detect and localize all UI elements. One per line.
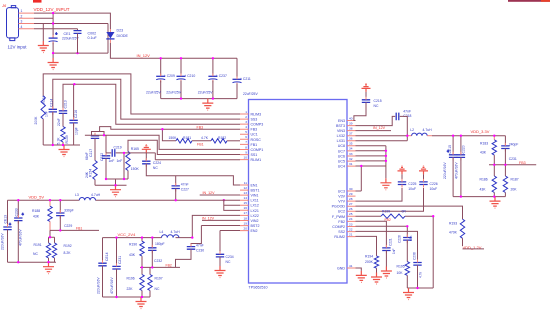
svg-text:R119: R119 — [42, 96, 46, 104]
svg-text:11: 11 — [244, 181, 247, 185]
wire VCC_2V4 rail — [103, 238, 193, 264]
svg-text:24K: 24K — [85, 171, 89, 178]
svg-text:D23: D23 — [117, 28, 124, 32]
capacitor C218 — [396, 113, 399, 121]
svg-text:R187: R187 — [511, 178, 519, 182]
svg-text:23: 23 — [349, 222, 353, 226]
svg-text:4.7K: 4.7K — [201, 136, 209, 140]
svg-text:32: 32 — [349, 157, 353, 161]
svg-text:25: 25 — [349, 212, 353, 216]
junction dots chan1 — [103, 134, 225, 201]
svg-text:EN1: EN1 — [251, 183, 258, 187]
svg-text:220uF/16V: 220uF/16V — [443, 162, 447, 179]
ground chan2 — [136, 297, 147, 309]
capacitor C219 series — [106, 152, 111, 154]
svg-text:C234: C234 — [226, 255, 234, 259]
wire C216 branch — [73, 84, 75, 120]
wire pin4 to C002 — [34, 28, 78, 30]
svg-text:BST2: BST2 — [251, 224, 260, 228]
capacitor C002 — [74, 29, 98, 53]
capacitor C230 bootstrap2 — [191, 226, 240, 247]
svg-text:220uF/16V: 220uF/16V — [97, 277, 101, 294]
svg-text:330pF: 330pF — [64, 209, 74, 213]
wire pin36 LX31 — [356, 136, 408, 141]
wire FB2 node — [140, 266, 180, 268]
ground R194 — [371, 273, 382, 285]
ground chan1 — [110, 185, 121, 197]
title bar fragment top-left — [33, 0, 42, 3]
svg-text:NC: NC — [33, 252, 38, 256]
svg-text:34: 34 — [349, 147, 353, 151]
svg-text:200K: 200K — [34, 116, 38, 125]
svg-text:IN_12V: IN_12V — [137, 53, 151, 58]
svg-text:LX11: LX11 — [251, 199, 259, 203]
capacitor CE14 — [98, 263, 106, 266]
svg-text:22uF/25V: 22uF/25V — [198, 90, 213, 94]
svg-text:22uF/25V: 22uF/25V — [146, 90, 161, 94]
svg-text:UC1: UC1 — [251, 133, 258, 137]
svg-text:SS2: SS2 — [338, 230, 345, 234]
svg-text:VDD_12V_INPUT: VDD_12V_INPUT — [34, 7, 70, 12]
wire LX2 to pin17 — [192, 215, 240, 237]
svg-text:19: 19 — [244, 221, 248, 225]
svg-text:43K: 43K — [480, 151, 487, 155]
wire bottom loop — [53, 52, 108, 54]
svg-text:R196: R196 — [127, 277, 135, 281]
svg-text:22: 22 — [349, 227, 353, 231]
wire VDD_3.3V rail — [427, 135, 432, 137]
capacitor C221 — [382, 248, 390, 251]
resistor R188 — [49, 200, 51, 206]
svg-text:C233: C233 — [14, 208, 18, 216]
svg-text:LX32: LX32 — [337, 134, 345, 138]
svg-text:FB1: FB1 — [197, 143, 204, 147]
svg-text:L3: L3 — [75, 193, 79, 197]
svg-text:4: 4 — [21, 25, 23, 29]
connector J6 — [1, 3, 27, 50]
resistor R182 — [211, 139, 227, 143]
svg-text:+: + — [55, 32, 57, 36]
svg-text:C221: C221 — [389, 238, 393, 246]
U1 pin names right — [332, 119, 346, 271]
svg-text:VCC_2V4: VCC_2V4 — [118, 232, 137, 237]
svg-text:VDD_5V: VDD_5V — [29, 195, 45, 200]
wire VDD_12V_INPUT — [34, 13, 110, 29]
svg-text:68nF: 68nF — [85, 152, 89, 160]
svg-text:150K: 150K — [169, 136, 178, 140]
svg-text:RLIM3: RLIM3 — [251, 112, 262, 116]
svg-text:R181: R181 — [183, 136, 191, 140]
svg-text:UC4: UC4 — [338, 165, 345, 169]
svg-text:COMP1: COMP1 — [251, 148, 264, 152]
svg-text:R194: R194 — [365, 255, 373, 259]
svg-text:VDD_3.3V: VDD_3.3V — [471, 129, 490, 134]
svg-text:C225: C225 — [408, 182, 416, 186]
svg-text:200K: 200K — [365, 260, 374, 264]
svg-text:+ C211: + C211 — [240, 77, 251, 81]
svg-text:V7V: V7V — [338, 200, 345, 204]
svg-text:27: 27 — [349, 202, 353, 206]
resistor R199 — [381, 214, 405, 218]
svg-text:VIN3: VIN3 — [337, 129, 345, 133]
svg-text:41: 41 — [349, 264, 353, 268]
wire to R191 R192 — [49, 230, 55, 243]
svg-text:470K: 470K — [449, 231, 458, 235]
svg-text:22K: 22K — [127, 287, 134, 291]
svg-text:FB2: FB2 — [166, 264, 172, 268]
power bar C224 — [142, 144, 151, 153]
svg-text:10K: 10K — [397, 271, 404, 275]
svg-text:R188: R188 — [32, 209, 40, 213]
capacitor C232 — [151, 238, 153, 248]
svg-text:J6: J6 — [1, 3, 7, 8]
svg-text:LX21: LX21 — [251, 209, 259, 213]
svg-text:40: 40 — [349, 116, 353, 120]
resistor R194 — [374, 256, 378, 268]
svg-text:29: 29 — [349, 192, 353, 196]
svg-text:UC2: UC2 — [338, 210, 345, 214]
wire C218 to LX3 — [400, 116, 408, 135]
svg-text:C222: C222 — [100, 153, 104, 161]
svg-text:4: 4 — [245, 125, 247, 129]
svg-text:1nF: 1nF — [45, 111, 49, 117]
svg-text:470uF/16V: 470uF/16V — [110, 277, 114, 294]
svg-text:C232: C232 — [154, 259, 162, 263]
wire C222 to rail — [105, 158, 107, 179]
resistor R196 — [141, 267, 143, 274]
junction dots VDD_5V — [17, 199, 177, 263]
svg-text:CE1: CE1 — [64, 32, 71, 36]
capacitor C231b 240pF — [504, 136, 506, 146]
inductor L4 — [162, 235, 179, 238]
svg-text:220uF/16V: 220uF/16V — [0, 233, 4, 250]
svg-text:NC: NC — [153, 166, 158, 170]
wire FB3 junction to divider row — [162, 129, 176, 141]
svg-text:IN_12V: IN_12V — [373, 126, 386, 130]
wire diode to IN_12V rail — [110, 43, 237, 58]
svg-text:+ C210: + C210 — [184, 74, 195, 78]
wire R119 to rail — [42, 119, 44, 145]
wire pin15 LX12 — [224, 204, 240, 206]
power bar C225 — [398, 166, 407, 175]
wire chan1 rail2 — [95, 184, 127, 186]
svg-text:R197: R197 — [155, 277, 163, 281]
wire FB1 node — [50, 229, 99, 231]
svg-text:1: 1 — [245, 110, 247, 114]
wire pins 35-31 to ground bus — [356, 146, 386, 179]
resistor R139 — [61, 127, 65, 143]
svg-text:39: 39 — [349, 121, 353, 125]
svg-text:36: 36 — [349, 137, 353, 141]
wire 3.3V bottom rail — [453, 196, 505, 198]
capacitor C209 — [146, 58, 175, 98]
svg-text:LX31: LX31 — [337, 139, 345, 143]
wire C213 to R139 — [62, 113, 64, 126]
capacitor C210 — [166, 58, 195, 98]
power bar C226 — [419, 166, 428, 175]
svg-text:1nF: 1nF — [392, 248, 396, 254]
svg-text:VIN1: VIN1 — [251, 194, 259, 198]
resistor R183 — [493, 136, 495, 140]
svg-text:C220: C220 — [461, 145, 465, 153]
svg-text:4.7uH: 4.7uH — [171, 230, 181, 234]
svg-text:21: 21 — [349, 232, 353, 236]
svg-text:C231: C231 — [118, 256, 122, 264]
svg-text:220uF/25V: 220uF/25V — [62, 36, 79, 40]
svg-text:F_PWM: F_PWM — [332, 215, 345, 219]
wire pin8 COMP1 jog to C222 — [85, 135, 240, 156]
resistor R193 pullup — [460, 219, 464, 238]
svg-text:FB1: FB1 — [251, 143, 258, 147]
svg-text:FB2: FB2 — [338, 220, 345, 224]
wire pin38 VIN3 — [356, 130, 392, 132]
ground CE1 — [48, 58, 59, 70]
junction dots 3.3V — [406, 135, 507, 198]
svg-text:VIN2: VIN2 — [251, 219, 259, 223]
svg-text:RLIM2: RLIM2 — [334, 235, 345, 239]
svg-text:R191: R191 — [34, 243, 42, 247]
svg-text:10pF: 10pF — [75, 127, 79, 135]
resistor R187 — [504, 165, 506, 176]
svg-text:0.1uF: 0.1uF — [88, 36, 98, 40]
svg-text:18: 18 — [244, 216, 248, 220]
svg-text:R193: R193 — [449, 222, 457, 226]
svg-text:C216: C216 — [74, 110, 78, 118]
resistor R192 — [52, 243, 56, 258]
wire pin41 GND — [356, 268, 362, 271]
wire C214 to rail — [52, 112, 54, 145]
wire R191 R192 bottoms to rail — [8, 258, 57, 262]
svg-text:13: 13 — [244, 191, 248, 195]
wire pin28 V7V to caps — [356, 188, 424, 211]
ground C234 — [215, 266, 226, 278]
wire pin16 LX21 — [224, 200, 240, 210]
svg-text:+ C209: + C209 — [164, 74, 175, 78]
title bar fragment top-right — [508, 0, 550, 2]
op-amp U1 TPS652510 IC body — [249, 100, 348, 284]
svg-text:16: 16 — [244, 206, 248, 210]
junction dots comp2 — [406, 215, 434, 289]
U1 left pin stubs — [240, 114, 249, 231]
svg-text:10uF: 10uF — [430, 187, 438, 191]
svg-text:4.7uH: 4.7uH — [91, 193, 101, 197]
svg-text:37: 37 — [349, 132, 353, 136]
wire comp2 bottom rail — [407, 287, 433, 289]
svg-text:33: 33 — [349, 152, 353, 156]
svg-text:UC3: UC3 — [338, 189, 345, 193]
svg-text:R192: R192 — [64, 244, 72, 248]
wire C216 to rail — [73, 123, 75, 145]
capacitor C228 — [403, 238, 411, 241]
junction dots UC bus — [385, 150, 387, 162]
capacitor CE15 — [452, 136, 454, 155]
capacitor C229 — [59, 200, 61, 213]
svg-text:24: 24 — [349, 217, 353, 221]
svg-text:NC: NC — [374, 104, 379, 108]
resistor R165 — [126, 152, 130, 171]
wire pin2 SS3 to C214 — [53, 79, 240, 119]
svg-text:150K: 150K — [131, 167, 140, 171]
svg-text:6: 6 — [245, 135, 247, 139]
capacitor C231 — [116, 238, 118, 267]
svg-text:UC8: UC8 — [338, 144, 345, 148]
svg-text:NC: NC — [226, 260, 231, 264]
svg-text:PGOOD: PGOOD — [332, 205, 346, 209]
wire caps bottom rail — [161, 98, 237, 100]
capacitor C220 — [460, 136, 462, 155]
svg-text:C231: C231 — [509, 157, 517, 161]
wire pin27 PGOOD — [356, 206, 463, 219]
svg-text:C215: C215 — [374, 99, 382, 103]
svg-text:LX12: LX12 — [251, 204, 259, 208]
svg-text:L4: L4 — [160, 230, 164, 234]
svg-text:ROSC: ROSC — [251, 138, 262, 142]
junction dots IN_12V rail — [160, 57, 215, 100]
svg-text:5.1K: 5.1K — [57, 137, 61, 145]
svg-text:35: 35 — [349, 142, 353, 146]
wire pin23 COMP2 — [356, 226, 408, 237]
wire R165 to rail — [127, 171, 129, 180]
svg-text:FB3: FB3 — [519, 161, 526, 165]
svg-text:43K: 43K — [480, 187, 487, 191]
svg-text:R186: R186 — [480, 178, 488, 182]
svg-text:470uF/16V: 470uF/16V — [454, 162, 458, 179]
svg-text:47nF: 47nF — [403, 109, 411, 113]
pin numbers J6 1-4 — [21, 9, 23, 29]
svg-text:FB1: FB1 — [76, 226, 82, 230]
wire C224 to pin11 EN1 — [146, 164, 240, 185]
junction dot FB3 — [161, 128, 163, 130]
svg-text:SS1: SS1 — [251, 153, 258, 157]
svg-text:IN_12V: IN_12V — [203, 191, 216, 195]
resistor R154 — [93, 161, 97, 180]
wire pin9 SS1 jog to R165 — [128, 140, 240, 154]
svg-text:GND: GND — [337, 266, 345, 270]
svg-text:1nF: 1nF — [109, 159, 115, 163]
svg-text:5: 5 — [245, 130, 247, 134]
junction dots chan2 — [115, 236, 193, 298]
capacitor CE13 — [3, 227, 11, 230]
svg-text:R154: R154 — [89, 169, 93, 177]
svg-text:C238: C238 — [413, 252, 417, 260]
svg-text:COMP2: COMP2 — [332, 225, 345, 229]
svg-text:180pF: 180pF — [155, 242, 165, 246]
wire pin2 to CE1 — [34, 17, 53, 19]
svg-text:26: 26 — [349, 207, 353, 211]
svg-text:C219: C219 — [114, 145, 122, 149]
wire pin13 VIN1 — [200, 194, 240, 196]
svg-text:8.2K: 8.2K — [64, 251, 72, 255]
svg-text:28: 28 — [349, 197, 353, 201]
inductor L3 — [79, 198, 95, 201]
capacitor C233 — [17, 200, 19, 218]
svg-text:4.7uH: 4.7uH — [423, 128, 433, 132]
svg-text:TPS652510: TPS652510 — [249, 286, 268, 290]
wire pin24 FB2 — [356, 221, 387, 248]
resistor R195 — [405, 262, 409, 276]
svg-text:UC7: UC7 — [338, 149, 345, 153]
svg-text:C224: C224 — [153, 161, 161, 165]
wire pin25 F_PWM — [356, 215, 382, 217]
svg-text:10: 10 — [244, 155, 248, 159]
wire pin30 UC3 tie to pin31 — [356, 166, 362, 191]
wire pin37 LX32 to L2 — [356, 135, 409, 137]
capacitor CE1 — [49, 13, 80, 58]
svg-text:0R: 0R — [402, 210, 407, 214]
capacitor C234 — [220, 231, 240, 255]
svg-text:RLIM1: RLIM1 — [251, 158, 262, 162]
ground pin41 — [356, 271, 367, 283]
capacitor C237 — [198, 58, 227, 98]
svg-text:12: 12 — [244, 186, 248, 190]
wire R139 to rail — [62, 142, 64, 145]
junction dots input — [52, 12, 79, 54]
svg-text:UC5: UC5 — [338, 160, 345, 164]
svg-text:31: 31 — [349, 162, 353, 166]
svg-text:14: 14 — [244, 196, 248, 200]
ground UC bus — [380, 178, 391, 190]
capacitor C226 — [423, 174, 425, 182]
svg-text:R199: R199 — [382, 210, 390, 214]
svg-text:V3V: V3V — [338, 195, 345, 199]
svg-text:C228: C228 — [397, 235, 401, 243]
svg-text:30: 30 — [349, 187, 353, 191]
wire C227 to VDD_5V rail — [175, 189, 177, 201]
ground VDD_5V block — [43, 262, 54, 274]
svg-text:47nF: 47nF — [196, 243, 204, 247]
capacitor C217 — [91, 136, 99, 139]
power bar C215 — [362, 83, 371, 92]
svg-text:+: + — [9, 223, 11, 227]
resistor R197 — [149, 267, 151, 274]
svg-text:22uF/25V: 22uF/25V — [243, 92, 258, 96]
svg-text:EN2: EN2 — [251, 229, 258, 233]
svg-text:CE14: CE14 — [105, 252, 109, 261]
svg-text:17: 17 — [244, 211, 248, 215]
svg-text:R190: R190 — [129, 243, 137, 247]
wire pin3 gnd — [34, 24, 108, 54]
wire pin21 RLIM2 — [356, 236, 377, 256]
ground comp2 — [403, 288, 414, 300]
svg-text:20K: 20K — [511, 187, 518, 191]
svg-text:C213: C213 — [64, 100, 68, 108]
svg-text:COMP3: COMP3 — [251, 123, 264, 127]
capacitor C227 — [175, 176, 177, 186]
svg-text:8: 8 — [245, 145, 247, 149]
svg-text:240pF: 240pF — [509, 143, 519, 147]
capacitor C224 — [145, 153, 147, 161]
diode D23 — [106, 28, 128, 43]
ground caps rail — [202, 99, 213, 111]
svg-text:CE13: CE13 — [4, 215, 8, 224]
ground connector — [38, 41, 49, 53]
capacitor C225 — [401, 174, 403, 182]
capacitor C215 — [365, 92, 367, 100]
svg-text:C226: C226 — [430, 182, 438, 186]
svg-text:C229: C229 — [64, 224, 72, 228]
wire pin1 RLIM3 to R119 — [43, 74, 240, 114]
svg-text:4.7n: 4.7n — [418, 272, 422, 278]
wire pin3 COMP3 branch — [63, 84, 240, 124]
svg-text:BST1: BST1 — [251, 189, 260, 193]
wire C217 to R154 — [94, 138, 96, 160]
U1 right pin stubs — [347, 121, 356, 269]
svg-text:L2: L2 — [410, 128, 414, 132]
resistor R181 — [176, 139, 192, 143]
svg-text:470uF/16V: 470uF/16V — [18, 229, 22, 246]
wire pin4 FB3 — [92, 127, 241, 136]
svg-text:43K: 43K — [129, 253, 136, 257]
